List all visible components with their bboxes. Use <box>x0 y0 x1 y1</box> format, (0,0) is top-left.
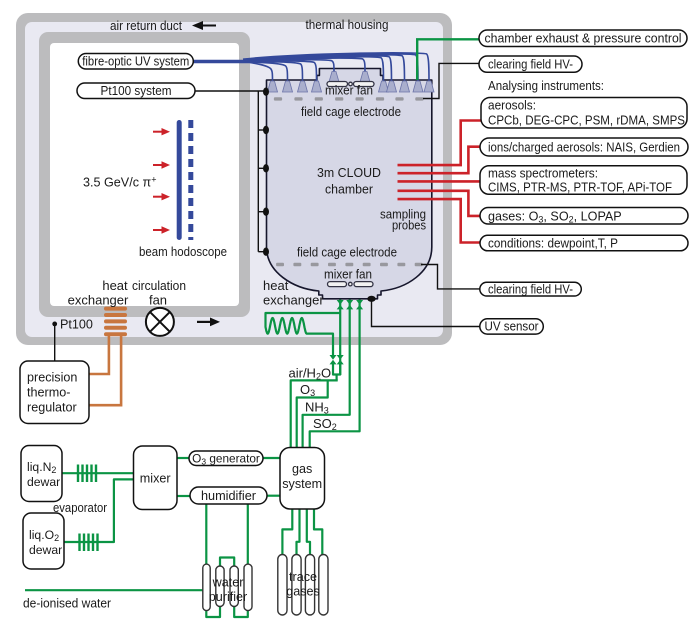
svg-text:CIMS, PTR-MS, PTR-TOF, APi-TOF: CIMS, PTR-MS, PTR-TOF, APi-TOF <box>488 181 672 195</box>
mixer fan (bottom) <box>328 282 374 287</box>
box: humidifier <box>190 487 267 504</box>
svg-text:fan: fan <box>149 293 167 308</box>
svg-text:evaporator: evaporator <box>53 500 108 515</box>
box: gases <box>480 208 688 225</box>
wire: NH3 line <box>303 300 350 449</box>
red sampling lines to analysers <box>398 121 482 243</box>
wire: manifold output <box>336 375 338 381</box>
mixer fan (top) <box>327 82 374 87</box>
3m CLOUD chamber vessel <box>267 69 432 299</box>
svg-text:ions/charged aerosols: NAIS, G: ions/charged aerosols: NAIS, Gerdien <box>488 141 680 155</box>
heat exchanger coil (green) with feed and return <box>266 313 341 355</box>
box: mixer <box>134 446 178 510</box>
evaporator hatch marks (O2) <box>78 534 80 552</box>
svg-text:clearing field HV-: clearing field HV- <box>488 58 573 72</box>
wire: O3 generator to gas system <box>263 457 280 459</box>
svg-text:dewar: dewar <box>29 543 62 557</box>
svg-text:field cage electrode: field cage electrode <box>301 104 401 119</box>
water purifier columns <box>203 564 252 611</box>
svg-text:circulation: circulation <box>132 278 186 293</box>
orange thermo lines <box>89 336 121 405</box>
svg-text:beam hodoscope: beam hodoscope <box>139 244 227 259</box>
wire: probe to conditions box <box>398 199 481 242</box>
box: gas system <box>280 448 325 510</box>
svg-text:de-ionised water: de-ionised water <box>23 596 112 611</box>
svg-text:chamber: chamber <box>325 182 374 197</box>
Pt100 sensor dots <box>263 88 269 256</box>
water purifier top bridge <box>220 558 234 568</box>
box: conditions <box>480 235 688 251</box>
thermal housing outer wall <box>16 13 452 345</box>
UV sensor port <box>367 296 375 302</box>
svg-text:Pt100: Pt100 <box>60 318 93 332</box>
heat exchanger coil (orange) <box>104 307 127 337</box>
wire: gas system to trace gas 2 <box>297 509 300 556</box>
wire: liq.O2 to mixer <box>64 479 134 542</box>
air return duct room wall <box>39 32 250 317</box>
wire: SO2 line <box>310 300 360 449</box>
svg-text:exchanger: exchanger <box>68 293 129 308</box>
wire: gas system to trace gas 4 <box>314 509 322 556</box>
svg-text:gases: O3, SO2, LOPAP: gases: O3, SO2, LOPAP <box>488 209 622 224</box>
wire: gas system to trace gas 3 <box>307 509 310 556</box>
svg-text:aerosols:: aerosols: <box>488 99 536 113</box>
trace gases cylinders <box>278 555 328 616</box>
wire: green chamber exhaust line <box>417 39 479 80</box>
svg-text:regulator: regulator <box>27 401 77 415</box>
svg-text:thermo-: thermo- <box>27 386 70 400</box>
fibre-optic bundle from UV system box <box>193 60 252 64</box>
box: O3 generator <box>189 451 263 466</box>
box: chamber exhaust & pressure control <box>479 30 687 47</box>
svg-text:dewar: dewar <box>27 475 60 489</box>
wire: thermoregulator to heat exchanger (return) <box>89 336 121 405</box>
svg-text:mixer fan: mixer fan <box>324 267 372 282</box>
wire: mixer to humidifier <box>177 495 190 497</box>
circulation fan symbol <box>146 308 174 336</box>
Pt100 sensor bus on chamber wall <box>195 91 265 252</box>
box: liq.O2 dewar <box>23 513 64 569</box>
box: precision thermo-regulator <box>20 361 89 424</box>
svg-text:UV sensor: UV sensor <box>485 320 539 334</box>
svg-text:Pt100 system: Pt100 system <box>101 84 172 98</box>
svg-text:probes: probes <box>392 218 426 233</box>
box: fibre-optic UV system <box>78 54 193 70</box>
svg-text:field cage electrode: field cage electrode <box>297 245 397 260</box>
svg-text:water: water <box>212 576 244 590</box>
wire: clearing field HV- (bottom) <box>421 265 480 289</box>
box: liq.N2 dewar <box>21 446 62 502</box>
svg-text:exchanger: exchanger <box>263 293 324 308</box>
wire: probe to aerosols box <box>398 121 482 166</box>
wire: mixer to O3 generator <box>177 457 189 459</box>
arrow: air return duct flow <box>192 21 216 30</box>
green gas plumbing <box>25 300 360 618</box>
wire: de-ionised water <box>25 589 204 591</box>
wire: probe to mass spectrometers box <box>398 180 481 183</box>
svg-text:fibre-optic UV system: fibre-optic UV system <box>82 55 189 69</box>
experiment room interior <box>50 43 239 306</box>
box: Pt100 system <box>77 83 195 99</box>
Pt100 probe dot <box>52 322 57 327</box>
manifold U join <box>333 364 340 375</box>
field cage electrode dashes (top row) <box>274 97 424 100</box>
svg-text:gas: gas <box>292 462 312 476</box>
wire: thermoregulator to heat exchanger (supply) <box>89 336 109 374</box>
wire: Pt100 to thermoregulator <box>54 326 56 361</box>
fibre-optic fan curves <box>243 53 429 81</box>
svg-text:humidifier: humidifier <box>201 489 256 503</box>
box: ions/charged aerosols <box>480 138 688 156</box>
beam hodoscope dashed bar <box>188 120 193 240</box>
svg-text:heat: heat <box>102 278 128 293</box>
svg-text:precision: precision <box>27 371 77 385</box>
svg-text:mass spectrometers:: mass spectrometers: <box>488 167 598 181</box>
box: mass spectrometers <box>480 166 687 195</box>
valves below chamber (3 lines x 2 bowties) <box>330 300 364 364</box>
box: aerosols <box>481 98 687 129</box>
water purifier bottom bridge (right) <box>234 606 248 617</box>
wire: liq.N2 to mixer <box>62 472 134 474</box>
svg-text:CPCb, DEG-CPC, PSM, rDMA, SMPS: CPCb, DEG-CPC, PSM, rDMA, SMPS <box>488 114 685 128</box>
wire: humidifier to water purifier (left) <box>205 504 207 566</box>
UV light diffuser cones (top of chamber) <box>268 72 435 93</box>
beam hodoscope solid bar <box>177 120 182 240</box>
water purifier bottom bridge (left) <box>206 606 220 617</box>
wire: humidifier to gas system <box>267 495 280 497</box>
valves on manifold pair <box>330 355 337 364</box>
svg-text:mixer fan: mixer fan <box>325 83 373 98</box>
svg-text:air/H2O: air/H2O <box>289 366 332 382</box>
box: clearing field HV- (bottom) <box>480 282 582 296</box>
svg-text:air return duct: air return duct <box>110 18 182 33</box>
svg-text:trace: trace <box>289 570 317 584</box>
field cage electrode dashes (bottom row) <box>276 263 423 266</box>
svg-text:Analysing instruments:: Analysing instruments: <box>488 78 604 93</box>
wire: clearing field HV- (top) <box>423 63 479 98</box>
svg-text:thermal housing: thermal housing <box>306 17 389 32</box>
box: clearing field HV- (top) <box>479 56 582 72</box>
wire: gas system to trace gas 1 <box>282 509 292 556</box>
svg-text:gases: gases <box>286 585 320 599</box>
svg-text:system: system <box>282 477 322 491</box>
svg-text:3m CLOUD: 3m CLOUD <box>317 165 381 180</box>
wire: UV sensor <box>372 300 481 327</box>
arrow: circulation flow <box>197 318 220 327</box>
svg-text:clearing field HV-: clearing field HV- <box>488 282 573 296</box>
wire: humidifier to water purifier (right) <box>247 504 249 566</box>
svg-text:mixer: mixer <box>140 472 171 486</box>
wire: O3 riser <box>297 380 328 448</box>
svg-text:conditions: dewpoint,T, P: conditions: dewpoint,T, P <box>488 236 618 250</box>
box: UV sensor <box>480 319 544 334</box>
svg-text:purifier: purifier <box>209 590 248 604</box>
beam arrows (red) <box>153 128 170 234</box>
wire: air/H2O to gas system <box>291 380 338 448</box>
wire: probe to gases box <box>398 191 481 216</box>
svg-text:3.5 GeV/c π+: 3.5 GeV/c π+ <box>83 175 156 190</box>
wire: air/H2O chamber feed line <box>339 300 341 376</box>
svg-text:heat: heat <box>263 278 289 293</box>
svg-text:chamber exhaust & pressure con: chamber exhaust & pressure control <box>485 32 682 46</box>
wire: probe to ions box <box>398 147 481 174</box>
evaporator hatch marks (N2) <box>78 465 98 552</box>
